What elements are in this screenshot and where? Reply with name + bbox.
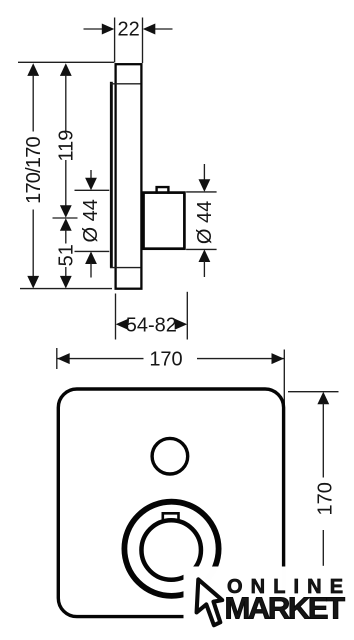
svg-text:Ø 44: Ø 44 [80,199,102,242]
svg-text:119: 119 [55,130,77,162]
svg-text:170: 170 [315,482,337,515]
svg-text:54-82: 54-82 [126,314,177,336]
svg-text:170: 170 [149,349,182,371]
svg-text:MARKET: MARKET [225,590,346,625]
svg-text:51: 51 [56,244,78,266]
svg-text:Ø 44: Ø 44 [194,201,216,244]
svg-text:170/170: 170/170 [23,136,45,203]
svg-text:22: 22 [117,18,139,40]
